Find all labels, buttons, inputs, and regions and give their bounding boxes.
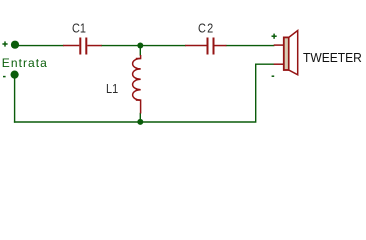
svg-text:C2: C2 xyxy=(198,21,214,36)
svg-text:C1: C1 xyxy=(72,21,86,36)
svg-text:TWEETER: TWEETER xyxy=(303,51,362,65)
svg-text:Entrata: Entrata xyxy=(2,56,48,70)
svg-text:L1: L1 xyxy=(106,81,118,96)
